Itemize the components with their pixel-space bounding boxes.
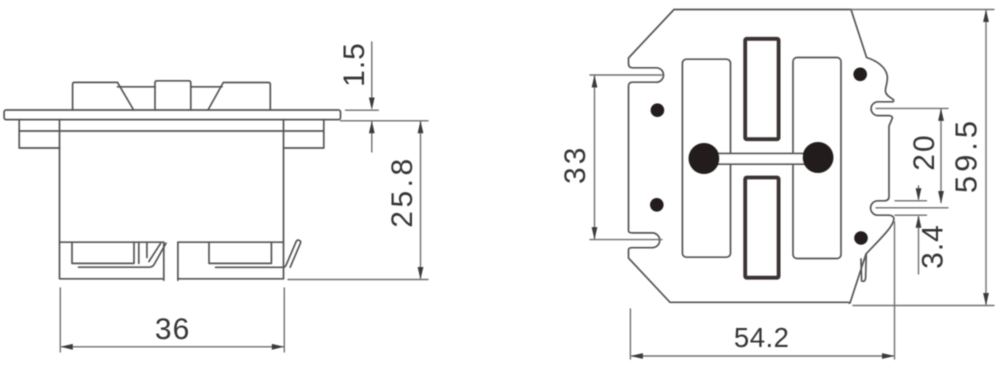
dim 33 extensions	[590, 75, 662, 240]
left inner rectangle	[682, 59, 730, 257]
dim 59.5 extension bottom	[853, 305, 994, 307]
dim 1.5 line	[371, 42, 373, 152]
right bracket	[284, 120, 324, 148]
dim 36 extensions	[60, 288, 284, 352]
arrow 33 up	[592, 75, 598, 88]
dim 36 line	[62, 346, 283, 348]
dimension texts	[155, 42, 984, 353]
arrow 36 right	[272, 344, 285, 350]
svg-text:3.4: 3.4	[917, 224, 950, 269]
arrow 1.5 up	[369, 121, 375, 134]
dim 25.8 line	[420, 122, 422, 278]
left clip lip and hook	[79, 243, 167, 267]
svg-text:36: 36	[155, 313, 190, 346]
dim 20 extensions	[876, 108, 948, 207]
sub-plate line	[19, 130, 324, 132]
right clip box	[209, 242, 271, 263]
arrow 25.8 down	[418, 267, 424, 280]
dim 3.4 extensions	[895, 201, 927, 215]
arrow 3.4 down	[916, 188, 922, 201]
svg-text:1.5: 1.5	[338, 42, 371, 87]
svg-text:54.2: 54.2	[734, 322, 790, 353]
flange plate	[4, 110, 340, 120]
plate outline	[629, 10, 894, 304]
ridge line right	[191, 86, 222, 88]
left terminal circle	[689, 143, 720, 174]
ridge line left	[118, 86, 156, 88]
dim 1.5 extension top	[346, 109, 379, 111]
dim 25.8 extension bottom	[288, 279, 428, 281]
arrow 59.5 up	[983, 10, 989, 23]
center top slot	[745, 39, 778, 139]
dim 59.5 line	[985, 11, 987, 304]
arrow 1.5 down	[369, 98, 375, 111]
shoulder line	[60, 241, 284, 243]
arrow 33 down	[592, 227, 598, 240]
arrow 59.5 down	[983, 293, 989, 306]
dim 54.2 line	[632, 355, 893, 357]
arrow 36 left	[60, 344, 73, 350]
arrow 25.8 up	[418, 121, 424, 134]
left bracket	[19, 120, 59, 148]
right terminal circle	[803, 142, 834, 173]
mounting dot bottom-left	[650, 198, 664, 212]
dim 54.2 extensions	[630, 222, 894, 359]
center bottom slot	[745, 178, 778, 278]
terminal bar	[704, 154, 818, 165]
left clip box	[72, 242, 147, 263]
dim 20 line	[940, 109, 942, 202]
mounting dot top-right	[853, 68, 867, 82]
svg-text:33: 33	[559, 145, 592, 184]
main body outline	[60, 120, 284, 279]
arrow 54.2 left	[630, 353, 643, 359]
arrow 20 up	[938, 108, 944, 121]
right clip lip and hook	[216, 240, 301, 267]
center tab	[155, 81, 191, 110]
svg-text:20: 20	[908, 133, 941, 170]
dim 33 line	[594, 76, 596, 239]
dim 3.4 arrows tails	[918, 186, 920, 274]
dim 25.8 extension top	[341, 120, 429, 122]
dim 59.5 extension top	[851, 9, 994, 11]
right inner rectangle	[793, 58, 841, 259]
left top bump	[73, 82, 134, 110]
mounting dot top-left	[651, 103, 665, 117]
right top bump	[208, 83, 270, 111]
arrow 20 down	[938, 191, 944, 204]
arrow 54.2 right	[882, 353, 895, 359]
corner rib finger	[861, 255, 866, 281]
mounting dot bottom-right	[854, 231, 868, 245]
arrow 3.4 up	[916, 215, 922, 228]
svg-text:25.8: 25.8	[386, 155, 419, 227]
svg-text:59.5: 59.5	[949, 117, 984, 193]
center slot	[164, 242, 178, 280]
